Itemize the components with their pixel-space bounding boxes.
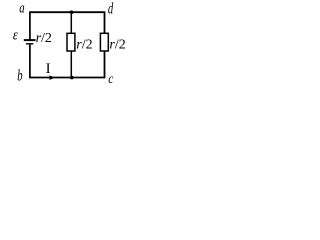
wire middle upper (top junction to resistor) [70,12,72,33]
svg-text:c: c [108,71,113,83]
svg-text:a: a [19,0,25,16]
junction dot top node [70,10,74,14]
battery cell plate short (bottom) [26,43,34,45]
wire right upper (d to resistor) [104,11,106,33]
resistor box middle r/2 [67,33,75,51]
wire bottom b-c [30,77,105,79]
svg-text:r/2: r/2 [36,31,52,46]
current arrowhead I on bottom wire [50,75,55,80]
resistor box right r/2 [100,33,108,51]
battery cell plate long (top) [24,39,36,41]
svg-text:r/2: r/2 [76,38,92,53]
svg-text:ε: ε [13,26,18,42]
wire right lower (resistor to c) [104,51,106,78]
wire middle lower (resistor to bottom junction) [70,51,72,78]
wire top a-d [30,11,105,13]
svg-text:d: d [108,0,114,17]
wire left lower (battery to b) [29,44,31,78]
svg-text:I: I [46,61,51,77]
wire left upper (a to battery) [29,11,31,39]
svg-text:b: b [17,67,23,83]
junction dot bottom node [70,76,74,80]
svg-text:r/2: r/2 [109,38,125,53]
